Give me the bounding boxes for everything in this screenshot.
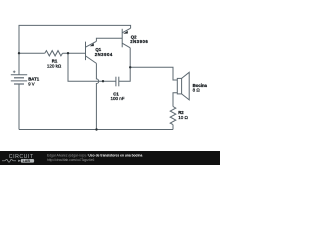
wire speaker to R2 bbox=[173, 93, 177, 107]
footer bar bbox=[0, 151, 220, 165]
svg-text:Edgar Alvarez (edgar-rojo) / U: Edgar Alvarez (edgar-rojo) / Uso de tran… bbox=[47, 153, 142, 157]
battery BAT1 bbox=[11, 71, 27, 85]
svg-text:10 Ω: 10 Ω bbox=[178, 115, 188, 120]
svg-text:2N3906: 2N3906 bbox=[130, 39, 148, 44]
wire left vertical below battery bbox=[18, 84, 20, 130]
logo arrow bbox=[18, 160, 20, 162]
wire R2 to bottom rail bbox=[172, 125, 174, 130]
svg-text:2N3904: 2N3904 bbox=[95, 52, 113, 57]
wire base feed R1 bbox=[19, 52, 45, 54]
logo waveform bbox=[2, 159, 16, 162]
node base/R1/feedback junction bbox=[67, 52, 69, 54]
svg-text:http://circuitlab.com/cu73qpz4: http://circuitlab.com/cu73qpz4e6 bbox=[47, 158, 94, 162]
node feedback wire joint bbox=[102, 80, 104, 82]
resistor R1 bbox=[45, 51, 63, 56]
wire top rail bbox=[19, 25, 131, 74]
speaker Bocina bbox=[177, 72, 189, 100]
wire Q1 emitter down, hop over C1 wire bbox=[96, 63, 98, 129]
resistor R2 bbox=[170, 107, 176, 125]
wire Q2 collector down to C1 elbow bbox=[119, 48, 130, 81]
logo LAB box bbox=[21, 159, 34, 163]
svg-text:LAB: LAB bbox=[23, 159, 31, 163]
wire Q1 collector to Q2 base bbox=[96, 38, 122, 41]
transistor Q1 bbox=[86, 41, 97, 63]
svg-text:100 nF: 100 nF bbox=[110, 96, 124, 101]
node Q2 collector / speaker junction bbox=[129, 66, 131, 68]
wire speaker feed bbox=[130, 67, 177, 80]
node emitter ground junction bbox=[95, 128, 97, 130]
wire feedback vertical from base node bbox=[68, 53, 116, 81]
node base junction left bbox=[18, 52, 20, 54]
capacitor C1 bbox=[116, 77, 119, 87]
svg-text:8 Ω: 8 Ω bbox=[193, 88, 201, 93]
wire bottom rail bbox=[19, 129, 173, 131]
transistor Q2 bbox=[122, 28, 130, 48]
svg-text:120 kΩ: 120 kΩ bbox=[47, 64, 62, 69]
wire R1 to Q1 base bbox=[63, 52, 86, 54]
svg-text:9 V: 9 V bbox=[28, 81, 35, 86]
